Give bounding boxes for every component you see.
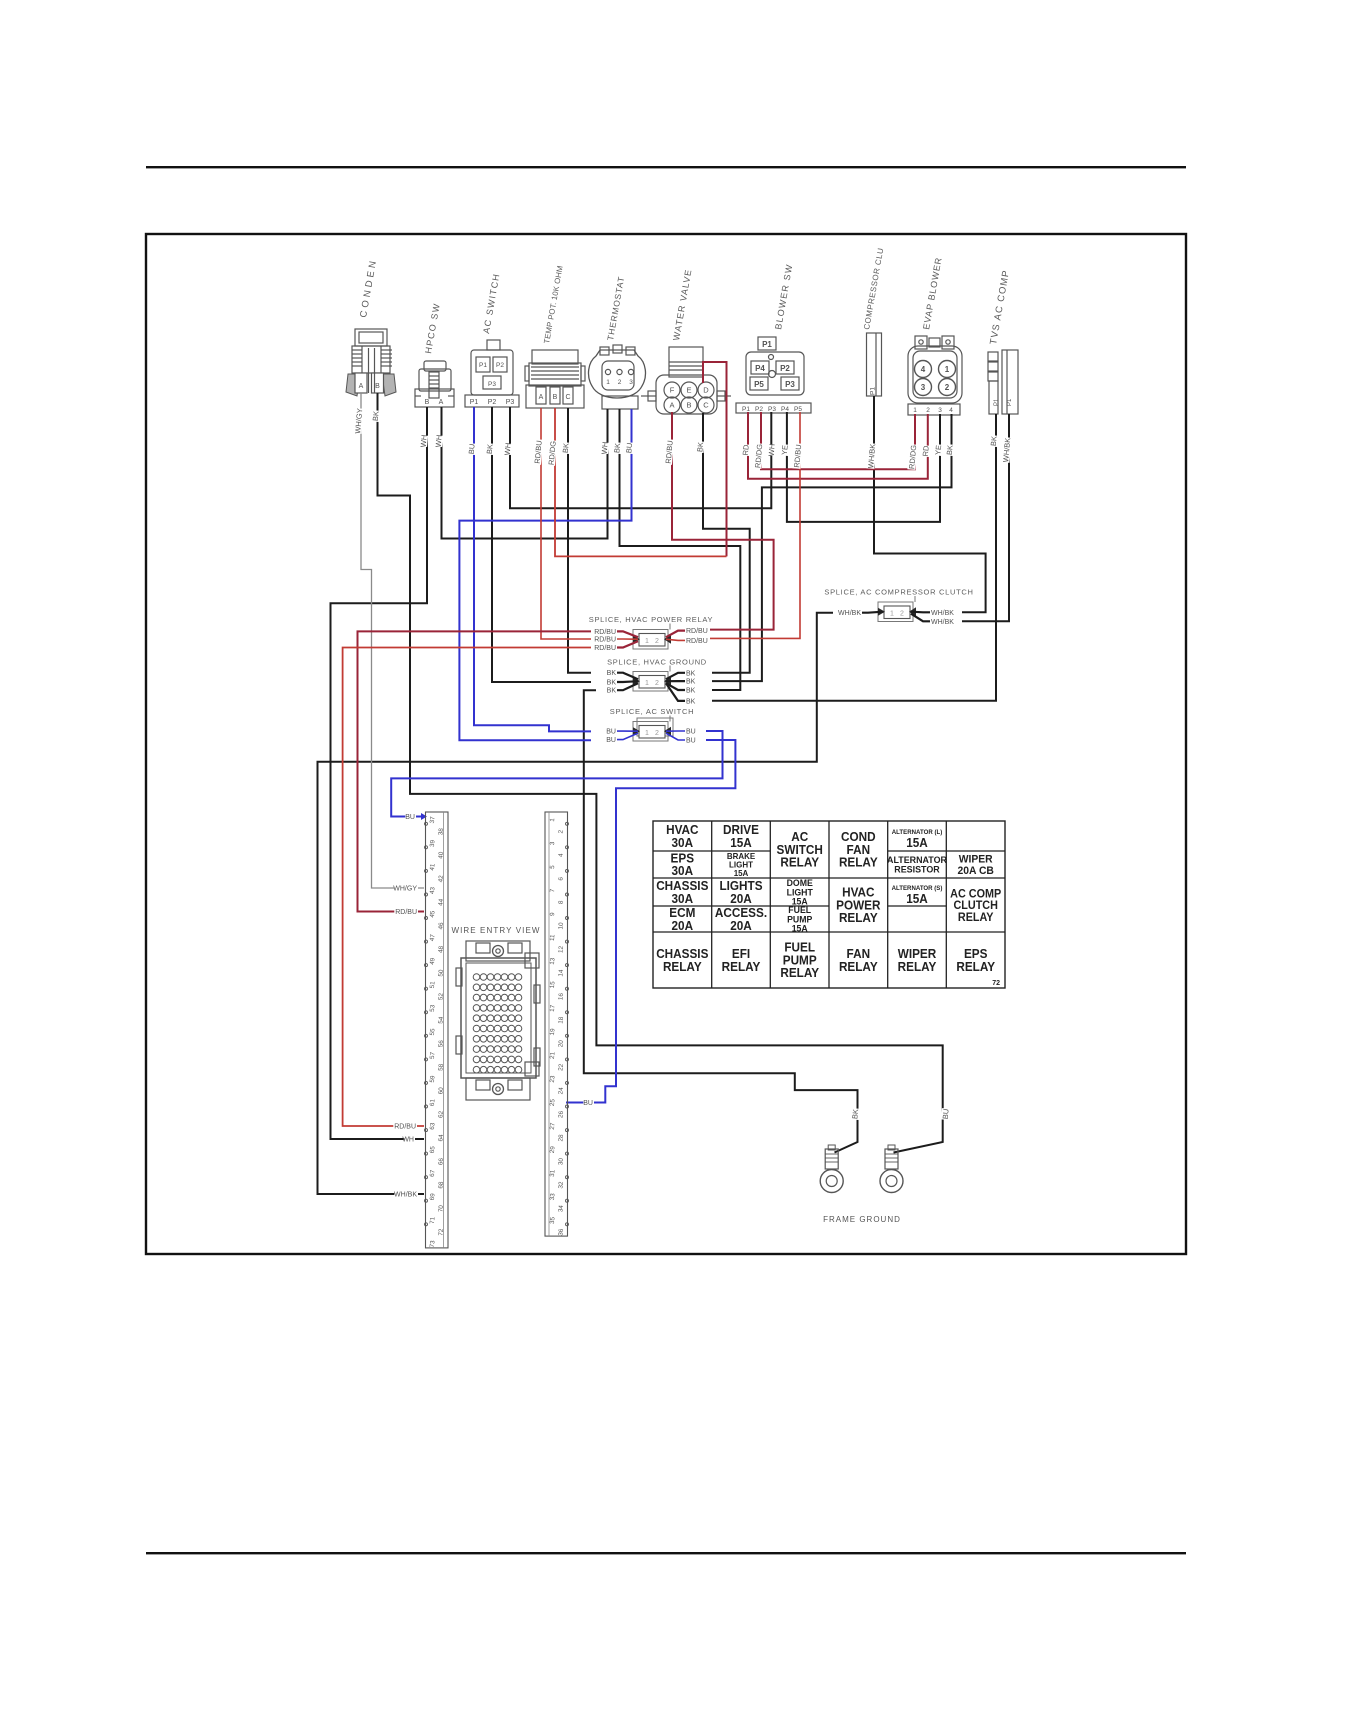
svg-text:1: 1 — [606, 379, 610, 386]
svg-text:WH/BK: WH/BK — [931, 619, 954, 626]
svg-text:P2: P2 — [780, 364, 790, 373]
svg-text:BU: BU — [606, 737, 616, 744]
svg-text:50: 50 — [437, 969, 445, 977]
svg-text:72: 72 — [992, 980, 1000, 987]
svg-text:52: 52 — [437, 992, 445, 1000]
svg-text:29: 29 — [549, 1146, 557, 1154]
svg-text:73: 73 — [429, 1240, 437, 1248]
svg-text:P1: P1 — [742, 406, 750, 413]
svg-text:2: 2 — [655, 730, 659, 737]
svg-text:P2: P2 — [496, 362, 504, 369]
svg-text:17: 17 — [549, 1004, 557, 1012]
svg-text:36: 36 — [557, 1228, 565, 1236]
svg-text:BK: BK — [686, 688, 696, 695]
svg-text:WH: WH — [434, 434, 444, 447]
svg-text:1: 1 — [890, 611, 894, 618]
svg-text:51: 51 — [429, 981, 437, 989]
svg-text:RELAY: RELAY — [958, 912, 994, 924]
svg-text:38: 38 — [437, 827, 445, 835]
svg-text:RELAY: RELAY — [956, 959, 995, 973]
svg-text:1: 1 — [645, 730, 649, 737]
svg-text:CLUTCH: CLUTCH — [953, 900, 997, 912]
svg-text:2: 2 — [945, 383, 950, 392]
svg-text:C: C — [565, 394, 570, 401]
svg-text:BU: BU — [583, 1100, 593, 1107]
svg-text:BK: BK — [686, 670, 696, 677]
svg-text:SPLICE, AC COMPRESSOR CLUTCH: SPLICE, AC COMPRESSOR CLUTCH — [824, 588, 973, 597]
svg-text:65: 65 — [429, 1146, 437, 1154]
svg-text:56: 56 — [437, 1039, 445, 1047]
svg-text:WH: WH — [419, 434, 429, 447]
svg-text:49: 49 — [429, 957, 437, 965]
svg-text:RELAY: RELAY — [839, 911, 878, 925]
svg-text:P1: P1 — [870, 387, 877, 395]
svg-text:27: 27 — [549, 1122, 557, 1130]
svg-text:YE: YE — [780, 445, 790, 456]
svg-text:30: 30 — [557, 1157, 565, 1165]
svg-text:P4: P4 — [781, 406, 789, 413]
svg-text:45: 45 — [429, 910, 437, 918]
svg-text:C: C — [703, 401, 709, 410]
svg-text:3: 3 — [629, 379, 633, 386]
svg-text:B: B — [553, 394, 558, 401]
svg-text:RELAY: RELAY — [780, 855, 819, 869]
svg-text:BK: BK — [686, 698, 696, 705]
svg-text:67: 67 — [429, 1169, 437, 1177]
svg-text:58: 58 — [437, 1063, 445, 1071]
svg-text:WIRE ENTRY VIEW: WIRE ENTRY VIEW — [451, 926, 540, 935]
svg-text:35: 35 — [549, 1216, 557, 1224]
svg-text:A: A — [439, 399, 444, 406]
svg-text:BK: BK — [612, 443, 622, 454]
svg-text:WH/BK: WH/BK — [394, 1192, 417, 1199]
svg-text:P3: P3 — [768, 406, 776, 413]
svg-text:P2: P2 — [488, 399, 497, 406]
svg-text:20A: 20A — [730, 918, 752, 932]
svg-text:RESISTOR: RESISTOR — [894, 864, 940, 874]
svg-text:46: 46 — [437, 922, 445, 930]
svg-text:11: 11 — [549, 934, 557, 942]
svg-text:15A: 15A — [906, 835, 928, 849]
svg-text:P3: P3 — [506, 399, 515, 406]
svg-text:SPLICE, HVAC GROUND: SPLICE, HVAC GROUND — [607, 658, 707, 667]
svg-text:BK: BK — [607, 688, 617, 695]
svg-text:YE: YE — [933, 445, 943, 456]
svg-text:60: 60 — [437, 1087, 445, 1095]
svg-text:BU: BU — [405, 814, 415, 821]
svg-text:SPLICE, HVAC POWER RELAY: SPLICE, HVAC POWER RELAY — [589, 615, 713, 624]
svg-text:2: 2 — [926, 407, 930, 414]
svg-text:70: 70 — [437, 1204, 445, 1212]
svg-text:37: 37 — [429, 816, 437, 824]
svg-text:25: 25 — [549, 1098, 557, 1106]
svg-text:WH/BK: WH/BK — [931, 610, 954, 617]
svg-text:RELAY: RELAY — [839, 855, 878, 869]
svg-text:RD/BU: RD/BU — [395, 909, 417, 916]
svg-text:BK: BK — [695, 442, 705, 453]
svg-text:31: 31 — [549, 1169, 557, 1177]
svg-text:15A: 15A — [906, 891, 928, 905]
svg-text:WH: WH — [600, 441, 610, 454]
svg-text:F: F — [670, 386, 675, 395]
svg-text:4: 4 — [949, 407, 953, 414]
svg-text:BK: BK — [686, 679, 696, 686]
svg-text:1: 1 — [645, 680, 649, 687]
svg-text:32: 32 — [557, 1181, 565, 1189]
svg-text:BK: BK — [485, 444, 495, 455]
svg-text:71: 71 — [429, 1216, 437, 1224]
svg-text:34: 34 — [557, 1204, 565, 1212]
svg-text:48: 48 — [437, 945, 445, 953]
svg-text:69: 69 — [429, 1193, 437, 1201]
svg-text:WH/BK: WH/BK — [838, 610, 861, 617]
svg-text:WH/GY: WH/GY — [393, 886, 417, 893]
svg-text:B: B — [425, 399, 430, 406]
svg-text:D: D — [703, 386, 709, 395]
svg-text:43: 43 — [429, 886, 437, 894]
svg-text:61: 61 — [429, 1098, 437, 1106]
svg-text:15A: 15A — [792, 923, 808, 933]
svg-text:RD/BU: RD/BU — [394, 1124, 416, 1131]
svg-text:RELAY: RELAY — [663, 959, 702, 973]
svg-text:B: B — [375, 383, 380, 390]
svg-text:E: E — [686, 386, 691, 395]
svg-text:15A: 15A — [730, 835, 752, 849]
svg-text:P5: P5 — [794, 406, 802, 413]
svg-text:WH: WH — [402, 1137, 414, 1144]
svg-text:P1: P1 — [994, 398, 1000, 406]
svg-text:4: 4 — [921, 365, 926, 374]
svg-text:14: 14 — [557, 969, 565, 977]
svg-text:BU: BU — [606, 729, 616, 736]
svg-text:57: 57 — [429, 1051, 437, 1059]
svg-text:2: 2 — [900, 611, 904, 618]
svg-text:26: 26 — [557, 1110, 565, 1118]
svg-text:BK: BK — [989, 436, 999, 447]
svg-text:BK: BK — [607, 680, 617, 687]
svg-text:30A: 30A — [672, 891, 694, 905]
svg-text:3: 3 — [938, 407, 942, 414]
svg-text:RELAY: RELAY — [839, 959, 878, 973]
svg-text:P2: P2 — [755, 406, 763, 413]
svg-text:P1: P1 — [1007, 398, 1013, 406]
svg-text:19: 19 — [549, 1028, 557, 1036]
svg-text:BU: BU — [941, 1108, 951, 1119]
svg-text:RD/BU: RD/BU — [594, 645, 616, 652]
svg-text:13: 13 — [549, 957, 557, 965]
svg-text:20A: 20A — [672, 918, 694, 932]
svg-text:23: 23 — [549, 1075, 557, 1083]
svg-text:RD/BU: RD/BU — [594, 637, 616, 644]
svg-text:A: A — [669, 401, 674, 410]
svg-text:RD: RD — [741, 444, 751, 456]
svg-text:40: 40 — [437, 851, 445, 859]
svg-text:41: 41 — [429, 863, 437, 871]
svg-text:30A: 30A — [672, 835, 694, 849]
svg-text:P3: P3 — [785, 380, 795, 389]
svg-text:BK: BK — [607, 670, 617, 677]
svg-text:BU: BU — [624, 442, 634, 453]
svg-text:P1: P1 — [762, 340, 772, 349]
svg-text:BU: BU — [686, 738, 696, 745]
svg-text:12: 12 — [557, 945, 565, 953]
svg-text:1: 1 — [645, 638, 649, 645]
svg-text:15: 15 — [549, 981, 557, 989]
svg-text:P3: P3 — [488, 381, 496, 388]
svg-text:16: 16 — [557, 992, 565, 1000]
svg-text:RELAY: RELAY — [722, 959, 761, 973]
svg-text:20: 20 — [557, 1039, 565, 1047]
svg-text:42: 42 — [437, 875, 445, 883]
svg-text:1: 1 — [913, 407, 917, 414]
svg-text:44: 44 — [437, 898, 445, 906]
svg-text:B: B — [686, 401, 691, 410]
svg-text:P1: P1 — [479, 362, 487, 369]
svg-text:FRAME GROUND: FRAME GROUND — [823, 1215, 901, 1224]
svg-text:33: 33 — [549, 1193, 557, 1201]
svg-text:28: 28 — [557, 1134, 565, 1142]
svg-text:63: 63 — [429, 1122, 437, 1130]
svg-text:24: 24 — [557, 1087, 565, 1095]
svg-text:55: 55 — [429, 1028, 437, 1036]
svg-text:BU: BU — [467, 443, 477, 454]
svg-text:18: 18 — [557, 1016, 565, 1024]
svg-text:2: 2 — [618, 379, 622, 386]
svg-text:BK: BK — [561, 443, 571, 454]
svg-text:10: 10 — [557, 922, 565, 930]
svg-text:SPLICE, AC SWITCH: SPLICE, AC SWITCH — [610, 707, 694, 716]
svg-text:AC COMP: AC COMP — [950, 888, 1002, 900]
svg-text:2: 2 — [655, 680, 659, 687]
svg-text:21: 21 — [549, 1051, 557, 1059]
svg-text:39: 39 — [429, 839, 437, 847]
svg-text:RELAY: RELAY — [898, 959, 937, 973]
svg-text:54: 54 — [437, 1016, 445, 1024]
svg-text:BK: BK — [945, 445, 955, 456]
svg-text:1: 1 — [945, 365, 950, 374]
svg-text:BK: BK — [371, 411, 381, 422]
svg-text:22: 22 — [557, 1063, 565, 1071]
svg-text:RD: RD — [921, 445, 931, 457]
svg-text:62: 62 — [437, 1110, 445, 1118]
svg-text:WH: WH — [767, 443, 777, 456]
svg-text:RD/BU: RD/BU — [594, 629, 616, 636]
svg-text:72: 72 — [437, 1228, 445, 1236]
svg-text:RELAY: RELAY — [780, 966, 819, 980]
svg-text:RD/BU: RD/BU — [686, 638, 708, 645]
svg-text:59: 59 — [429, 1075, 437, 1083]
svg-text:3: 3 — [921, 383, 926, 392]
svg-text:68: 68 — [437, 1181, 445, 1189]
svg-text:P5: P5 — [754, 380, 764, 389]
svg-text:64: 64 — [437, 1134, 445, 1142]
svg-text:BU: BU — [686, 729, 696, 736]
svg-text:BK: BK — [850, 1109, 860, 1120]
svg-text:30A: 30A — [672, 864, 694, 878]
svg-text:A: A — [539, 394, 544, 401]
svg-text:2: 2 — [655, 638, 659, 645]
svg-text:RD/BU: RD/BU — [686, 628, 708, 635]
svg-text:P4: P4 — [755, 364, 765, 373]
svg-text:WH: WH — [503, 442, 513, 455]
svg-text:20A: 20A — [730, 891, 752, 905]
svg-text:A: A — [359, 383, 364, 390]
svg-text:20A CB: 20A CB — [958, 865, 995, 877]
svg-text:15A: 15A — [734, 869, 749, 878]
svg-text:66: 66 — [437, 1157, 445, 1165]
svg-text:53: 53 — [429, 1004, 437, 1012]
svg-text:P1: P1 — [470, 399, 479, 406]
svg-text:47: 47 — [429, 933, 437, 941]
